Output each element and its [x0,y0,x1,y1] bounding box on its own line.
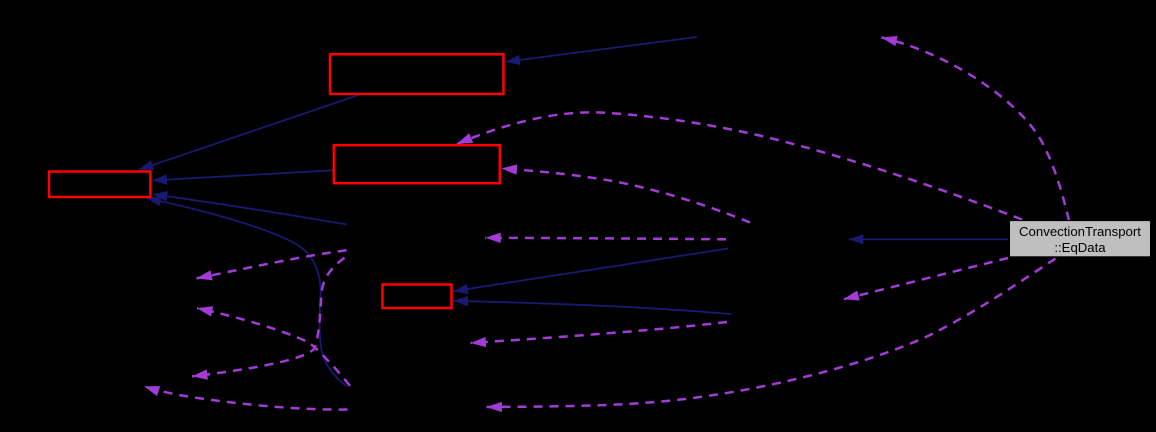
svg-text:::EqData: ::EqData [1054,240,1106,255]
svg-text:ConvectionTransport: ConvectionTransport [1019,224,1141,239]
